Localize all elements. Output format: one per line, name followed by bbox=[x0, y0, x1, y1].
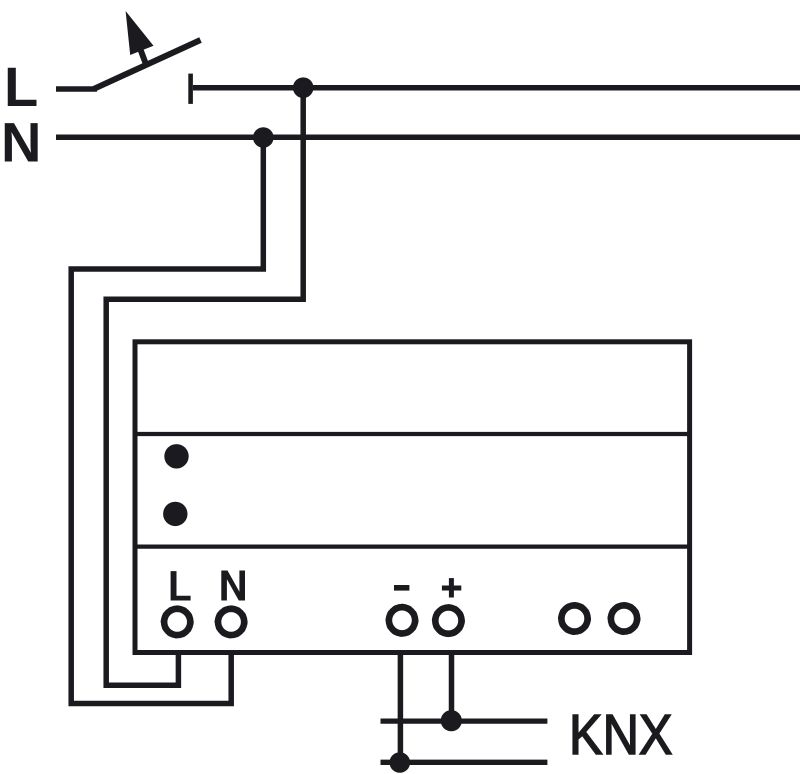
svg-text:N: N bbox=[1, 111, 41, 174]
svg-text:L: L bbox=[4, 55, 38, 118]
svg-text:KNX: KNX bbox=[569, 703, 673, 767]
